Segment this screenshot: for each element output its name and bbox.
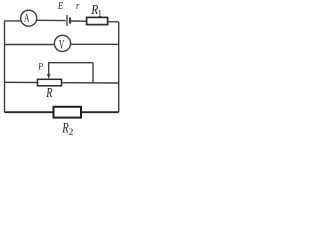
wire: rheostat to right rail xyxy=(62,82,119,84)
wire: bottom rail right xyxy=(81,111,119,113)
resistor R2 xyxy=(54,107,82,118)
svg-text:E: E xyxy=(57,1,64,12)
wire: right vertical rail xyxy=(118,22,120,112)
wire: mid rail left to rheostat xyxy=(5,81,38,83)
svg-text:P: P xyxy=(37,61,43,72)
wire: wiper right descent xyxy=(92,63,94,83)
svg-text:2: 2 xyxy=(69,127,74,137)
ammeter A1 xyxy=(21,10,37,26)
svg-text:R: R xyxy=(61,121,68,137)
svg-text:1: 1 xyxy=(98,8,103,18)
wiper arrow head P xyxy=(47,74,51,79)
wire: voltmeter row left xyxy=(5,44,55,46)
wire: wiper stem vertical xyxy=(48,63,50,75)
wire: bottom rail left xyxy=(5,111,54,113)
wire: R1 to right rail xyxy=(108,21,119,23)
svg-text:r: r xyxy=(76,1,79,12)
battery E (long plate) xyxy=(66,15,68,26)
wire: battery to R1 xyxy=(71,20,87,22)
resistor R1 xyxy=(87,17,108,24)
wire: left vertical rail xyxy=(4,21,6,113)
svg-text:V: V xyxy=(59,38,64,53)
svg-text:A: A xyxy=(24,10,30,24)
voltmeter V1 xyxy=(54,35,70,51)
wire: top rail left segment to ammeter xyxy=(5,20,22,22)
svg-text:R: R xyxy=(46,85,53,100)
wire: ammeter to battery xyxy=(37,19,66,21)
wire: wiper top horizontal xyxy=(48,62,93,64)
wire: voltmeter row right xyxy=(71,43,119,45)
battery E (short thick plate) xyxy=(69,17,71,23)
rheostat R (resistance box) xyxy=(38,79,62,86)
